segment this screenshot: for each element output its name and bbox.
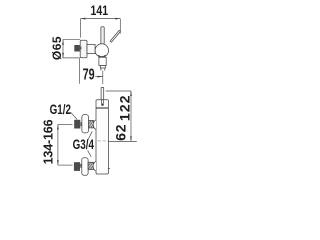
arrow 122 top bbox=[130, 91, 132, 96]
outlet tip prongs bbox=[101, 68, 105, 71]
body seam bbox=[96, 107, 108, 109]
top connector union nut bbox=[82, 115, 89, 133]
escutcheon body (side) bbox=[80, 40, 87, 58]
slot ball bbox=[101, 103, 104, 106]
centre dashes bbox=[98, 140, 108, 142]
leader G3/4 up bbox=[88, 131, 92, 139]
top connector: wall nipple G1/2 bbox=[74, 120, 80, 129]
right edge tick bbox=[108, 168, 110, 170]
label 79 (white knockout) bbox=[83, 66, 95, 83]
top connector hatched piece bbox=[88, 120, 93, 128]
dim 134-166 ext bottom bbox=[58, 164, 73, 166]
label G3/4 bbox=[73, 137, 95, 153]
dim 134-166 line bbox=[57, 124, 59, 165]
wall nipple dark block bbox=[74, 45, 80, 52]
dark junction arc bbox=[98, 55, 106, 57]
dim O65 ext bottom bbox=[63, 57, 80, 59]
arrow 79 right bbox=[98, 76, 103, 78]
nipple tab bbox=[80, 47, 82, 50]
dim 122/62 ext bottom bbox=[109, 140, 137, 142]
lever slot bbox=[102, 100, 104, 104]
outlet tip bbox=[100, 66, 105, 69]
arrowheads bbox=[57, 18, 132, 165]
arrow 134-166 bottom bbox=[57, 160, 59, 165]
svg-text:62: 62 bbox=[114, 124, 130, 141]
leader G1/2 bbox=[71, 112, 78, 119]
outlet axis ext line bbox=[102, 71, 104, 84]
dim 141 ext left bbox=[80, 19, 82, 38]
dim 134-166 ext top bbox=[58, 123, 73, 125]
bottom connector half-round bbox=[93, 161, 96, 171]
dim 122 ext top bbox=[106, 90, 131, 92]
label 134-166 (rotated) bbox=[42, 119, 56, 164]
arrow 141 right bbox=[115, 18, 120, 20]
bottom connector: nipple bbox=[74, 162, 80, 171]
svg-text:G3/4: G3/4 bbox=[73, 137, 95, 153]
svg-text:134-166: 134-166 bbox=[42, 119, 56, 164]
lever open position (tilted outline) bbox=[110, 30, 120, 42]
svg-text:122: 122 bbox=[117, 94, 133, 121]
outlet cylinder bbox=[99, 57, 106, 65]
bottom connector hatched piece bbox=[88, 162, 93, 169]
dim 79 bracket vertical bbox=[78, 58, 80, 84]
label 62 (rotated) bbox=[114, 124, 130, 141]
lever front bbox=[101, 87, 104, 99]
arrow 122 bottom bbox=[130, 136, 132, 141]
dim 141 ext right bbox=[119, 19, 121, 34]
svg-text:79: 79 bbox=[83, 66, 95, 83]
label 122 (rotated) bbox=[117, 94, 133, 121]
arrow 134-166 top bbox=[57, 124, 59, 129]
neck bbox=[87, 44, 95, 53]
dim O65 ext top bbox=[63, 39, 81, 41]
svg-text:G1/2: G1/2 bbox=[50, 101, 72, 117]
label G1/2 bbox=[50, 101, 72, 117]
svg-text:141: 141 bbox=[91, 3, 109, 19]
bottom connector stem bbox=[80, 164, 82, 168]
bottom connector union nut bbox=[82, 158, 88, 175]
dim O65 line bbox=[62, 40, 64, 58]
top connector stem bbox=[80, 122, 82, 126]
dim 79 line bbox=[95, 76, 102, 78]
arrow O65 top bbox=[62, 40, 64, 45]
body front bbox=[96, 100, 108, 174]
svg-text:Ø65: Ø65 bbox=[50, 36, 64, 60]
dim 141 line bbox=[81, 18, 121, 20]
label 141 bbox=[91, 3, 109, 19]
label O65 (rotated) bbox=[50, 36, 64, 60]
arrow O65 bottom bbox=[62, 53, 64, 58]
handle ball circle bbox=[95, 44, 108, 57]
top connector half-round bbox=[93, 120, 96, 130]
arrow 141 left bbox=[81, 18, 86, 20]
lever closed (vertical bar) bbox=[101, 27, 104, 44]
dim 122 line bbox=[130, 91, 132, 141]
leader G3/4 down bbox=[88, 150, 92, 157]
